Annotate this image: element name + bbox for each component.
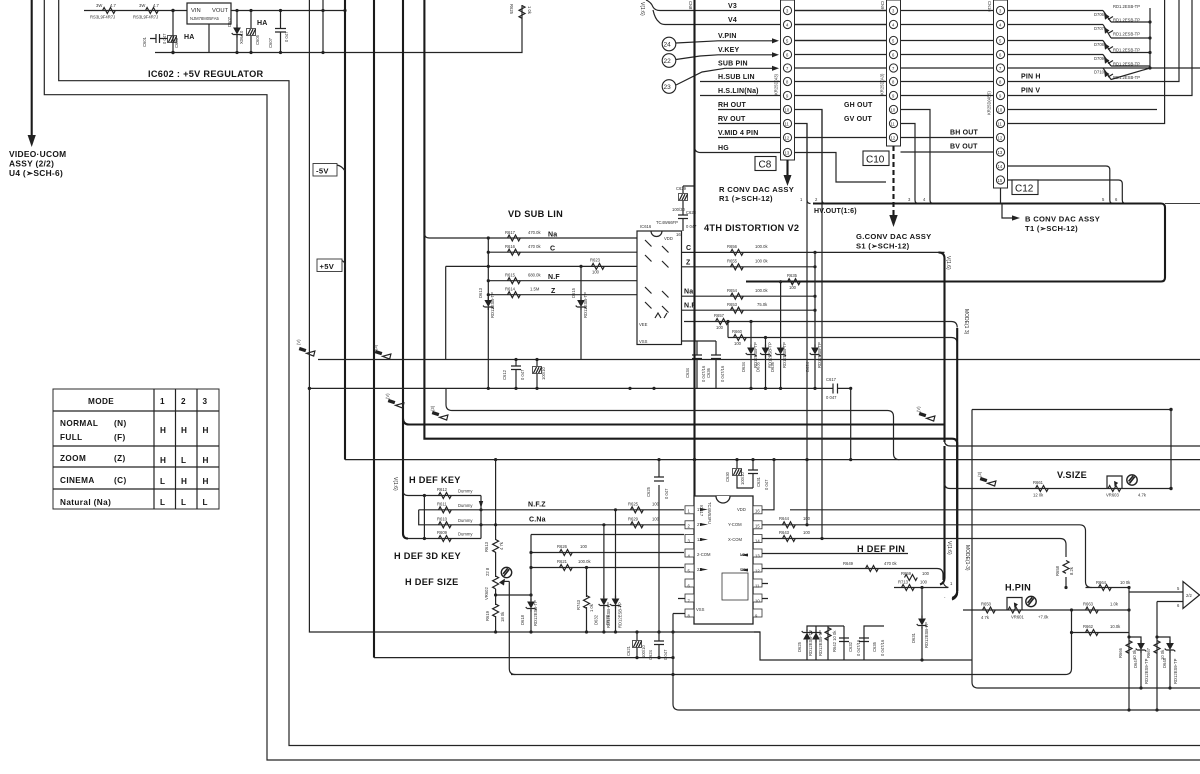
svg-text:3W: 3W xyxy=(139,3,145,8)
svg-text:H: H xyxy=(181,426,187,435)
svg-text:12 0k: 12 0k xyxy=(1033,493,1044,498)
svg-text:C630: C630 xyxy=(725,471,730,482)
wire: C12 pin14 row to bus xyxy=(1007,166,1113,204)
node: MODE(1 3) labels xyxy=(963,309,970,571)
wire: bold line y424 xyxy=(403,419,945,425)
svg-text:RH OUT: RH OUT xyxy=(718,102,747,109)
svg-text:1 0k: 1 0k xyxy=(589,603,594,612)
svg-text:RD12ESB-TP: RD12ESB-TP xyxy=(606,602,611,628)
wire: V.SIZE row xyxy=(945,483,1172,489)
wire: GH OUT wire C10 pin10 xyxy=(901,110,934,204)
svg-text:100: 100 xyxy=(803,516,811,521)
svg-text:4TH DISTORTION V2: 4TH DISTORTION V2 xyxy=(704,223,799,233)
zener column D632 on C.Na row xyxy=(594,523,612,633)
svg-text:BV OUT: BV OUT xyxy=(950,144,978,151)
svg-text:(Z): (Z) xyxy=(114,454,126,463)
IC602 regulator box xyxy=(187,3,231,24)
svg-text:C607: C607 xyxy=(268,37,273,48)
svg-text:R623: R623 xyxy=(590,258,601,263)
flag V at rail start xyxy=(296,339,315,356)
wire: R657 row xyxy=(684,322,957,328)
svg-text:11: 11 xyxy=(755,584,760,589)
svg-text:C10: C10 xyxy=(866,155,885,166)
svg-text:KR25D(43): KR25D(43) xyxy=(774,73,779,95)
svg-text:R644: R644 xyxy=(779,516,790,521)
zener diode ladder D705-D710 xyxy=(1094,4,1140,80)
svg-text:470 0k: 470 0k xyxy=(528,244,541,249)
svg-text:C8: C8 xyxy=(759,160,772,171)
svg-text:R659: R659 xyxy=(901,571,912,576)
resistor R625 vertical at top xyxy=(509,4,532,18)
svg-text:C631: C631 xyxy=(756,476,761,487)
svg-text:4.7k: 4.7k xyxy=(1138,493,1147,498)
svg-text:10: 10 xyxy=(755,599,760,604)
svg-text:C624: C624 xyxy=(648,649,653,660)
svg-text:C621: C621 xyxy=(626,645,631,656)
svg-text:V.MID 4 PIN: V.MID 4 PIN xyxy=(718,130,758,137)
svg-text:R612: R612 xyxy=(437,487,448,492)
svg-text:L: L xyxy=(181,498,186,507)
diode column D624 xyxy=(805,310,822,388)
flag 3 on vsize row xyxy=(977,471,996,486)
wire: vertical x403 bus xyxy=(403,0,408,539)
svg-text:H: H xyxy=(203,426,209,435)
svg-text:Dummy: Dummy xyxy=(458,489,473,494)
svg-text:R610: R610 xyxy=(437,517,448,522)
capacitor C629 electrolytic above IC xyxy=(672,186,695,212)
svg-text:C603: C603 xyxy=(174,37,179,48)
svg-text:(V): (V) xyxy=(296,339,301,345)
svg-text:HA: HA xyxy=(257,20,268,27)
wire: regulator output rail top xyxy=(231,10,345,12)
svg-text:R635: R635 xyxy=(787,273,798,278)
capacitor C624 below rail xyxy=(648,632,668,660)
C8 pins xyxy=(783,6,791,156)
zener D647 column xyxy=(1127,635,1149,688)
wire: r4 row xyxy=(408,538,481,540)
svg-text:C612: C612 xyxy=(502,369,507,380)
wire: L0 row xyxy=(762,553,908,555)
svg-text:H.S.LIN(Na): H.S.LIN(Na) xyxy=(718,88,759,95)
wire: Z row xyxy=(488,294,637,296)
svg-text:CN8: CN8 xyxy=(688,1,693,10)
wire: diode collector vertical x1150 xyxy=(1111,8,1152,80)
svg-text:1.5M: 1.5M xyxy=(530,287,540,292)
svg-text:Natural (Na): Natural (Na) xyxy=(60,498,111,507)
wire: 22 to V.KEY pin6 with arrow xyxy=(676,52,779,59)
resistor R660 xyxy=(726,320,746,346)
wire: x850 vertical xyxy=(850,388,852,459)
connector C10 strip xyxy=(880,0,901,146)
svg-text:D709: D709 xyxy=(1094,56,1105,61)
svg-text:10: 10 xyxy=(785,108,790,113)
svg-text:RD12ES9-TP: RD12ES9-TP xyxy=(1173,658,1178,684)
capacitor C630 electrolytic column xyxy=(725,460,753,488)
potentiometer VR603 xyxy=(1106,476,1147,498)
capacitor C607 xyxy=(268,11,289,53)
svg-text:3: 3 xyxy=(203,397,208,406)
wire: rail y632 step at x760 xyxy=(754,632,972,660)
svg-text:L: L xyxy=(160,498,165,507)
wire: r2 row xyxy=(419,509,481,511)
resistor R614 xyxy=(505,287,556,298)
connector C8 strip xyxy=(774,0,795,160)
node: R CONV DAC ASSY xyxy=(719,185,794,203)
resistor R635 on long line xyxy=(779,273,800,290)
-5V label box xyxy=(313,164,345,177)
svg-text:4 7k: 4 7k xyxy=(499,541,504,550)
svg-text:R613: R613 xyxy=(484,541,489,552)
wire: bottom rail of block xyxy=(318,359,1200,361)
wire: Na row with hook from bus x424 xyxy=(424,233,637,238)
diode D636 xyxy=(770,342,787,372)
svg-text:3W: 3W xyxy=(96,3,102,8)
svg-text:IC616: IC616 xyxy=(640,224,652,229)
svg-text:NJM78M05FA5: NJM78M05FA5 xyxy=(190,16,220,21)
svg-text:(N): (N) xyxy=(114,419,127,428)
wire: line y410 xyxy=(446,388,900,459)
resistor R661 xyxy=(1033,480,1048,498)
svg-text:C632: C632 xyxy=(848,641,853,652)
node: C12 label box xyxy=(1012,180,1038,195)
svg-text:R713: R713 xyxy=(898,580,909,585)
svg-text:V(1:6): V(1:6) xyxy=(392,477,398,491)
svg-text:0 047/16: 0 047/16 xyxy=(880,639,885,656)
svg-text:D707: D707 xyxy=(1094,26,1105,31)
resistor R666 on x1129 xyxy=(1118,641,1137,661)
svg-text:V(1:6): V(1:6) xyxy=(639,2,645,16)
svg-text:100: 100 xyxy=(922,571,930,576)
svg-text:14: 14 xyxy=(755,539,760,544)
svg-text:FULL: FULL xyxy=(60,433,83,442)
svg-text:100.0k: 100.0k xyxy=(755,288,768,293)
wire: VOUT down xyxy=(208,24,210,53)
capacitor C612 xyxy=(502,358,525,389)
resistor R623 xyxy=(590,258,604,275)
svg-text:C635: C635 xyxy=(872,641,877,652)
wire: C12 pin11 row to corner up xyxy=(1007,0,1165,124)
svg-text:R655: R655 xyxy=(727,259,738,264)
svg-text:10: 10 xyxy=(998,108,1003,113)
wire: C.Na into pin2 via R629 xyxy=(628,517,660,528)
svg-text:C12: C12 xyxy=(1015,184,1034,195)
wire: small arrows inside pins xyxy=(700,508,748,572)
flag V near x944 end xyxy=(916,406,935,421)
svg-text:D710: D710 xyxy=(1094,70,1105,75)
wire: R660 row xyxy=(728,322,957,344)
svg-text:U4 (➢SCH-6): U4 (➢SCH-6) xyxy=(9,168,63,178)
svg-text:RD12ESB-TP: RD12ESB-TP xyxy=(533,600,538,626)
resistor R609 xyxy=(437,530,473,542)
flag V on y424 start xyxy=(385,393,404,408)
svg-text:RV OUT: RV OUT xyxy=(718,116,746,123)
svg-text:10: 10 xyxy=(891,108,896,113)
wire: y710 dots xyxy=(1127,708,1158,711)
svg-text:12: 12 xyxy=(998,136,1003,141)
svg-text:Dummy: Dummy xyxy=(458,518,473,523)
svg-text:D624: D624 xyxy=(805,361,810,372)
svg-text:RD12ESB-TP: RD12ESB-TP xyxy=(808,630,813,656)
svg-text:0 047: 0 047 xyxy=(764,479,769,490)
diode column D635 xyxy=(756,336,773,389)
svg-text:C625: C625 xyxy=(646,486,651,497)
wire: long line y459 xyxy=(345,459,1200,461)
svg-text:RD12ESB-TP: RD12ESB-TP xyxy=(490,292,495,318)
svg-text:CINEMA: CINEMA xyxy=(60,476,95,485)
IC617 pin boxes right xyxy=(753,506,762,619)
svg-text:4 7k: 4 7k xyxy=(981,615,990,620)
wire: C10 exit arrow long dashed xyxy=(889,146,897,227)
svg-text:H: H xyxy=(203,477,209,486)
op-amp IC xyxy=(1177,582,1200,609)
svg-text:0 047: 0 047 xyxy=(664,488,669,499)
svg-text:100: 100 xyxy=(789,285,797,290)
svg-text:SUB PIN: SUB PIN xyxy=(718,61,748,68)
svg-text:RD12ES9-TP: RD12ES9-TP xyxy=(1144,658,1149,684)
wire: GV OUT wire C10 pin11 xyxy=(901,124,919,204)
svg-text:H.PIN: H.PIN xyxy=(1005,583,1031,593)
svg-text:D648: D648 xyxy=(1162,657,1167,668)
wire: y409 row right xyxy=(972,409,1171,411)
C12 pins xyxy=(996,6,1004,184)
svg-text:VIDEO·UCOM: VIDEO·UCOM xyxy=(9,149,66,159)
svg-text:RS3L9F4R7J: RS3L9F4R7J xyxy=(90,15,115,20)
potentiometer VR602 xyxy=(484,576,533,632)
svg-text:KR25D(A3): KR25D(A3) xyxy=(880,73,885,95)
svg-text:100 0k: 100 0k xyxy=(755,259,768,264)
wire: x673 vertical to y710 xyxy=(673,632,1200,710)
svg-text:VR602: VR602 xyxy=(484,587,489,600)
svg-text:(F): (F) xyxy=(114,433,126,442)
svg-text:C617: C617 xyxy=(826,377,837,382)
wire: H.S.LIN row xyxy=(700,0,1192,96)
wire: C12 pin15 row to bus xyxy=(1007,180,1126,204)
svg-text:R625: R625 xyxy=(509,4,514,15)
wire: N.F row xyxy=(488,280,637,282)
svg-text:C634: C634 xyxy=(685,367,690,378)
svg-text:D613: D613 xyxy=(478,287,483,298)
svg-text:R661: R661 xyxy=(1033,480,1044,485)
svg-text:RD12ESB-TP: RD12ESB-TP xyxy=(768,342,773,368)
node: B CONV DAC ASSY with arrow xyxy=(1001,188,1101,233)
svg-text:C: C xyxy=(550,246,555,253)
svg-text:D708: D708 xyxy=(1094,42,1105,47)
svg-text:12: 12 xyxy=(891,136,896,141)
svg-text:TC4W53FU: TC4W53FU xyxy=(707,502,712,524)
svg-text:D602: D602 xyxy=(227,16,232,27)
wire: H.PIN row y610 xyxy=(963,609,1129,611)
capacitor C625 column xyxy=(646,460,669,632)
svg-text:D635: D635 xyxy=(756,361,761,372)
svg-text:4.7: 4.7 xyxy=(153,3,159,8)
svg-text:2/2: 2/2 xyxy=(1186,593,1192,598)
svg-text:R642 10 0k: R642 10 0k xyxy=(832,630,837,652)
svg-text:C601: C601 xyxy=(142,36,147,47)
svg-text:R CONV DAC ASSY: R CONV DAC ASSY xyxy=(719,185,794,194)
svg-text:H DEF PIN: H DEF PIN xyxy=(857,544,905,554)
svg-text:R654: R654 xyxy=(727,288,738,293)
svg-text:100: 100 xyxy=(716,325,724,330)
wire: left link r1-r4 xyxy=(423,494,426,540)
wire: X-COM row R643 xyxy=(762,530,824,542)
svg-text:Na: Na xyxy=(548,232,557,239)
resistor R659 xyxy=(901,571,930,581)
wire: x511 vertical from VR602 area xyxy=(509,581,515,674)
wire: C8 pin10 to x822 down xyxy=(794,110,822,539)
wire: V4 row xyxy=(665,24,1103,26)
resistor R612 xyxy=(437,487,473,499)
svg-text:11: 11 xyxy=(785,122,790,127)
svg-text:RD1.2ESB-TP: RD1.2ESB-TP xyxy=(1113,48,1140,53)
svg-text:R615: R615 xyxy=(505,273,516,278)
svg-text:RD12ESB-TP: RD12ESB-TP xyxy=(818,630,823,656)
wire: r1 row hook from bus xyxy=(403,491,481,496)
diode column D634 xyxy=(741,320,758,389)
node: C8 label box xyxy=(755,157,776,171)
svg-text:(3): (3) xyxy=(430,405,435,411)
diode D613 xyxy=(478,287,495,318)
wire: C8 pin wires to bus hooks 1 2 xyxy=(800,110,1118,204)
svg-text:(3): (3) xyxy=(977,471,982,477)
wire: long line y388 with series cap xyxy=(309,387,852,389)
svg-text:10 0k: 10 0k xyxy=(1120,580,1131,585)
wire: RV OUT row xyxy=(718,123,783,125)
wire: V.PIN row right xyxy=(794,40,1103,42)
svg-text:RD12ESB-TP: RD12ESB-TP xyxy=(583,292,588,318)
svg-text:12: 12 xyxy=(755,569,760,574)
IC616 switch box xyxy=(637,220,682,345)
svg-text:N.F: N.F xyxy=(548,274,560,281)
svg-text:RD12ESB-TP: RD12ESB-TP xyxy=(817,342,822,368)
wire: row 68 extension right xyxy=(1150,67,1200,69)
screw for VR603 xyxy=(1127,475,1137,485)
resistor R602 xyxy=(133,3,159,20)
svg-text:100/10: 100/10 xyxy=(641,645,646,658)
svg-text:HV.OUT(1:6): HV.OUT(1:6) xyxy=(814,208,857,215)
resistor R656 xyxy=(727,244,768,255)
svg-text:D615: D615 xyxy=(571,287,576,298)
svg-text:(V): (V) xyxy=(916,406,921,412)
svg-text:R617: R617 xyxy=(505,230,516,235)
resistor R617 xyxy=(505,230,557,241)
wire: bold vertical x694 xyxy=(693,0,695,496)
svg-text:R643: R643 xyxy=(779,530,790,535)
svg-text:RD1.2ESB-TP: RD1.2ESB-TP xyxy=(1113,4,1140,9)
capacitor C605 xyxy=(255,34,260,45)
svg-text:V.SIZE: V.SIZE xyxy=(1057,470,1087,480)
svg-text:RS3L9F4R7J: RS3L9F4R7J xyxy=(133,15,158,20)
svg-text:R667: R667 xyxy=(1146,647,1151,658)
svg-text:RD12ESB-TP: RD12ESB-TP xyxy=(924,622,929,648)
wire: rows into IC617 pin3 pin4 pin5 xyxy=(531,535,684,568)
svg-text:R629: R629 xyxy=(628,517,639,522)
svg-text:H: H xyxy=(181,477,187,486)
resistor R658 xyxy=(1055,561,1074,590)
wire: G0 row with R649 xyxy=(762,561,943,580)
svg-text:0 047: 0 047 xyxy=(826,395,837,400)
wire: C8 pin11 to x807 down xyxy=(794,124,807,524)
wire: rail y660 from x374 corner xyxy=(374,657,673,659)
wire: HV bus xyxy=(746,204,1165,282)
svg-text:VDD: VDD xyxy=(737,507,746,512)
svg-text:0 047: 0 047 xyxy=(663,649,668,660)
svg-text:V(1:6): V(1:6) xyxy=(946,541,952,555)
svg-text:100: 100 xyxy=(734,341,742,346)
svg-text:HA: HA xyxy=(184,34,195,41)
resistor R601 xyxy=(90,3,116,20)
capacitor C635 column xyxy=(859,626,885,660)
wire: 24 to V.PIN pin5 with arrow xyxy=(676,38,779,43)
wire: r3 row xyxy=(419,510,481,525)
svg-text:R609: R609 xyxy=(437,530,448,535)
resistor R621 xyxy=(557,559,591,571)
svg-text:VSS: VSS xyxy=(639,339,648,344)
svg-text:L: L xyxy=(203,498,208,507)
wire: x1129 vertical xyxy=(1128,588,1130,711)
wire: C12 pin10 row xyxy=(1007,109,1157,111)
wire: BV OUT row into C12 pin13 xyxy=(901,151,994,153)
wire: HG row xyxy=(695,147,784,153)
svg-text:H DEF 3D KEY: H DEF 3D KEY xyxy=(394,551,461,561)
resistor R655 xyxy=(727,259,768,270)
svg-text:V(1.6): V(1.6) xyxy=(945,256,951,270)
svg-text:H: H xyxy=(160,456,166,465)
wire: C601 hang xyxy=(166,38,168,40)
wire: left bold vertical with arrow to VIDEO UCOM xyxy=(28,0,36,147)
node: 22 + screw xyxy=(485,567,512,578)
wire: vertical x780 down to rail xyxy=(780,282,782,389)
svg-text:16: 16 xyxy=(755,509,760,514)
svg-text:RD12ESB-TP: RD12ESB-TP xyxy=(782,342,787,368)
svg-text:R1 (➢SCH-12): R1 (➢SCH-12) xyxy=(719,194,773,203)
svg-text:BH OUT: BH OUT xyxy=(950,130,979,137)
svg-text:H DEF KEY: H DEF KEY xyxy=(409,475,461,485)
svg-text:680.0k: 680.0k xyxy=(528,273,541,278)
+5V label box xyxy=(317,259,345,272)
svg-text:470.0k: 470.0k xyxy=(528,230,541,235)
svg-text:R666: R666 xyxy=(1118,647,1123,658)
svg-text:CN9: CN9 xyxy=(880,1,885,10)
svg-text:H DEF SIZE: H DEF SIZE xyxy=(405,577,459,587)
svg-text:V4: V4 xyxy=(728,17,737,24)
wire: C.Na long row xyxy=(481,525,1092,588)
wire: SUB PIN row right xyxy=(794,67,1150,69)
svg-text:ZOOM: ZOOM xyxy=(60,454,86,463)
wire: N.F.Z into pin1 via R625 xyxy=(628,502,660,513)
wire: VDD pin to y459 xyxy=(762,460,774,510)
capacitor C603 electrolytic xyxy=(168,36,180,49)
svg-text:R653: R653 xyxy=(727,302,738,307)
flag 3 on rail xyxy=(373,344,391,359)
svg-text:12: 12 xyxy=(785,136,790,141)
wire: rows between C8 and C10 xyxy=(794,11,886,41)
svg-text:L: L xyxy=(181,456,186,465)
svg-text:VD SUB LIN: VD SUB LIN xyxy=(508,209,563,219)
capacitor C604 electrolytic xyxy=(239,11,256,53)
capacitor C632b column xyxy=(828,626,861,660)
node: circled 22 xyxy=(662,54,676,68)
wire: R663 row xyxy=(1070,602,1131,614)
svg-text:0 047/16: 0 047/16 xyxy=(720,365,725,382)
resistor R626 xyxy=(557,544,588,556)
resistor R657 xyxy=(714,313,728,330)
svg-text:H: H xyxy=(160,426,166,435)
wire: left stub pins 7 8 xyxy=(673,599,685,614)
wire: bus hook into V4 xyxy=(653,10,665,25)
svg-text:100: 100 xyxy=(803,530,811,535)
svg-text:D632: D632 xyxy=(594,614,599,625)
svg-text:100/10: 100/10 xyxy=(740,472,745,485)
